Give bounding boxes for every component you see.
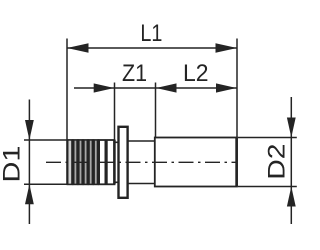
svg-text:Z1: Z1 [122, 60, 147, 87]
svg-text:L2: L2 [183, 60, 209, 87]
svg-text:D1: D1 [0, 146, 26, 183]
svg-text:D2: D2 [264, 144, 291, 180]
svg-text:L1: L1 [140, 20, 162, 47]
